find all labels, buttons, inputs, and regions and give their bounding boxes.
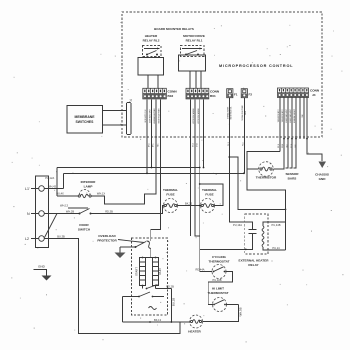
svg-text:BOARD MOUNTED RELAYS: BOARD MOUNTED RELAYS bbox=[154, 27, 194, 31]
junction BK,13 bbox=[149, 321, 151, 323]
connector CONN B02 bbox=[143, 88, 178, 99]
svg-text:HI LIMIT: HI LIMIT bbox=[212, 287, 224, 291]
svg-text:PU,13: PU,13 bbox=[228, 142, 230, 146]
pin label B01 rotated bbox=[193, 108, 200, 123]
svg-text:J7: J7 bbox=[129, 99, 133, 103]
svg-text:OVERLOAD: OVERLOAD bbox=[98, 234, 116, 238]
wires J4 pins down to dashed line bbox=[280, 97, 307, 152]
svg-text:WH,11: WH,11 bbox=[153, 143, 155, 147]
wire B01 pin3 long vertical to cycling feed bbox=[199, 100, 201, 250]
svg-text:WH,1X: WH,1X bbox=[97, 192, 105, 196]
svg-text:MOTOR DRIVE WINDING: MOTOR DRIVE WINDING bbox=[198, 108, 200, 123]
svg-text:BK,25: BK,25 bbox=[185, 201, 193, 205]
wire L2 diagonal to N row bbox=[45, 214, 58, 238]
pin label B02 rotated bbox=[145, 108, 161, 123]
bus wire 2 bbox=[64, 172, 245, 174]
svg-text:WH,14: WH,14 bbox=[149, 143, 151, 147]
wire labels below dashed line bbox=[149, 142, 298, 148]
heater relay RL2 bbox=[138, 34, 164, 88]
wire to chassis ground bbox=[307, 139, 322, 161]
svg-text:SWITCHES: SWITCHES bbox=[76, 120, 95, 124]
door switch bbox=[78, 209, 92, 232]
ground GND left bbox=[34, 265, 52, 281]
junction dots on J4 wires bbox=[283, 138, 308, 140]
svg-text:BK,13: BK,13 bbox=[154, 318, 162, 322]
svg-text:RD,1B: RD,1B bbox=[278, 144, 280, 148]
svg-text:THERMAL: THERMAL bbox=[202, 188, 217, 192]
svg-text:MICROPROCESSOR CONTROL: MICROPROCESSOR CONTROL bbox=[219, 64, 293, 68]
junction dots on buses bbox=[146, 167, 245, 207]
svg-text:MEMBRANE SW POWER: MEMBRANE SW POWER bbox=[153, 108, 156, 123]
svg-text:MOTOR DRIVE WINDING: MOTOR DRIVE WINDING bbox=[193, 108, 195, 123]
svg-text:BU,3B: BU,3B bbox=[57, 234, 65, 238]
wire winding tops bbox=[143, 257, 156, 259]
svg-text:HEATER RELAY COIL: HEATER RELAY COIL bbox=[230, 106, 233, 119]
wire door switch upper throw bbox=[68, 207, 88, 209]
wire lamp left bbox=[57, 195, 78, 197]
wire L1 bbox=[45, 188, 64, 190]
wire motor out down bbox=[170, 289, 172, 323]
svg-text:F1: F1 bbox=[234, 93, 238, 97]
svg-text:THERMAL: THERMAL bbox=[163, 188, 178, 192]
svg-text:WH,43: WH,43 bbox=[48, 184, 56, 188]
svg-text:BU,1B: BU,1B bbox=[171, 298, 175, 306]
ribbon connector J7 bbox=[127, 99, 133, 135]
wire B02 pin3 to interior lamp bbox=[91, 100, 156, 205]
svg-text:EXTERNAL HEATER: EXTERNAL HEATER bbox=[226, 107, 229, 119]
junction bottom riser bbox=[171, 321, 173, 323]
wire cycling feed bbox=[200, 249, 246, 271]
wire heater right bbox=[203, 305, 239, 322]
svg-text:THERMAL FUSE POWER: THERMAL FUSE POWER bbox=[241, 105, 244, 120]
svg-text:SWITCH: SWITCH bbox=[78, 228, 91, 232]
svg-text:WH,13: WH,13 bbox=[60, 203, 68, 207]
svg-text:N: N bbox=[27, 212, 30, 216]
motor run winding bbox=[153, 258, 163, 286]
bus left riser to terminal strip bbox=[57, 168, 64, 197]
svg-text:THERMOSTAT: THERMOSTAT bbox=[208, 260, 229, 264]
wire F2 to bus2 bbox=[243, 98, 245, 174]
svg-text:THERMISTOR INPUT: THERMISTOR INPUT bbox=[282, 109, 284, 122]
wire membrane to J7 bbox=[103, 111, 127, 126]
external heater relay box bbox=[245, 214, 268, 254]
wire motor left rect bbox=[122, 297, 124, 323]
svg-text:FUSE: FUSE bbox=[166, 193, 174, 197]
svg-text:PU,13A: PU,13A bbox=[233, 223, 242, 227]
thermal fuse 1 bbox=[164, 199, 178, 213]
svg-text:START: START bbox=[134, 267, 138, 276]
pointer line to overload bbox=[118, 240, 144, 243]
wire overload left lead bbox=[120, 246, 136, 248]
svg-text:SENSOR BARS INPUT: SENSOR BARS INPUT bbox=[289, 109, 292, 123]
svg-text:GND: GND bbox=[38, 265, 46, 269]
svg-text:DOOR: DOOR bbox=[79, 223, 89, 227]
svg-text:SENSOR BARS INPUT: SENSOR BARS INPUT bbox=[285, 109, 288, 123]
svg-text:INTERIOR: INTERIOR bbox=[81, 180, 97, 184]
bus wire 1 bbox=[57, 167, 200, 169]
wire B02 pin2 bbox=[151, 100, 153, 168]
svg-text:RELAY RL1: RELAY RL1 bbox=[186, 39, 203, 43]
relay contact plates bbox=[245, 222, 257, 249]
svg-text:PU,44B: PU,44B bbox=[272, 223, 281, 227]
svg-text:RELAY: RELAY bbox=[248, 263, 259, 267]
ground at overload bbox=[115, 247, 126, 258]
svg-text:PU,14: PU,14 bbox=[272, 246, 280, 250]
wire thermistor left bbox=[247, 168, 259, 170]
svg-text:L2: L2 bbox=[25, 237, 29, 241]
svg-text:MEMBRANE: MEMBRANE bbox=[75, 115, 96, 119]
svg-text:B01: B01 bbox=[210, 94, 216, 98]
svg-text:WH,1: WH,1 bbox=[158, 143, 160, 147]
svg-text:F2: F2 bbox=[249, 93, 253, 97]
connector CONN B01 bbox=[186, 88, 220, 99]
motor start winding bbox=[134, 258, 145, 286]
wire B01 pin labels stubs bbox=[191, 100, 200, 237]
pin labels J4 rotated bbox=[278, 109, 304, 123]
interior lamp bbox=[78, 190, 91, 198]
cycling thermostat bbox=[212, 265, 226, 279]
svg-text:BK,9X SUPPLY 21,9X: BK,9X SUPPLY 21,9X bbox=[145, 109, 147, 122]
motor drive relay RL1 bbox=[179, 34, 206, 88]
microprocessor control box bbox=[122, 12, 322, 137]
wire B01 pin4 stub bbox=[203, 100, 205, 168]
svg-text:CONN: CONN bbox=[310, 89, 320, 93]
wire between thermal fuses bbox=[178, 205, 202, 207]
svg-text:RD,3B: RD,3B bbox=[105, 209, 113, 213]
svg-text:THERMISTOR: THERMISTOR bbox=[256, 176, 277, 180]
wire thermal fuse 2 right up and over to bus2 bbox=[200, 184, 223, 206]
svg-text:HEATER: HEATER bbox=[188, 330, 201, 334]
svg-text:L1: L1 bbox=[25, 187, 29, 191]
svg-text:BK,43: BK,43 bbox=[193, 143, 195, 147]
membrane switches box bbox=[67, 106, 103, 134]
connector CONN J4 bbox=[278, 88, 320, 98]
svg-text:LAMP: LAMP bbox=[84, 185, 93, 189]
svg-text:HEATER RELAY POWER: HEATER RELAY POWER bbox=[158, 108, 161, 123]
wire B02 pin4 to motor overload bbox=[151, 100, 161, 242]
motor switch upper bbox=[142, 285, 172, 290]
wire relay right top bbox=[268, 221, 286, 223]
relay coil bbox=[262, 222, 285, 250]
svg-text:J4: J4 bbox=[312, 93, 316, 97]
centrifugal actuator bbox=[149, 307, 157, 310]
svg-text:PU,44: PU,44 bbox=[243, 142, 245, 146]
chassis ground bbox=[315, 162, 329, 182]
svg-text:CHASSIS: CHASSIS bbox=[315, 173, 329, 177]
svg-text:EXTERNAL HEATER: EXTERNAL HEATER bbox=[239, 259, 270, 263]
wire B02 pin1 bbox=[146, 100, 148, 174]
svg-text:CYCLING: CYCLING bbox=[212, 255, 227, 259]
svg-text:RD,2B: RD,2B bbox=[166, 284, 174, 288]
motor switch lower bbox=[123, 292, 165, 297]
wire F1 to external relay bbox=[229, 98, 245, 222]
wire cycling to hi-limit bbox=[208, 272, 232, 305]
thermistor bbox=[256, 162, 277, 180]
fuse F1 bbox=[227, 89, 238, 98]
svg-text:CONN: CONN bbox=[210, 90, 220, 94]
svg-text:GND: GND bbox=[319, 177, 327, 181]
svg-text:BARS: BARS bbox=[288, 177, 297, 181]
heater bbox=[188, 315, 202, 334]
svg-text:SENSOR: SENSOR bbox=[285, 172, 299, 176]
wire door switch out to thermal fuse 1 bbox=[91, 206, 165, 214]
pin label F1 F2 rotated bbox=[226, 105, 247, 120]
svg-text:THERMOSTAT: THERMOSTAT bbox=[207, 291, 228, 295]
svg-text:CONN: CONN bbox=[168, 90, 178, 94]
motor box bbox=[132, 238, 168, 315]
svg-text:DOOR SWITCH INPUT: DOOR SWITCH INPUT bbox=[150, 109, 152, 123]
wire hi-limit right bbox=[226, 304, 239, 306]
svg-text:WH,5B: WH,5B bbox=[238, 307, 242, 316]
svg-text:RELAY RL2: RELAY RL2 bbox=[143, 39, 160, 43]
svg-text:THERMISTOR INPUT: THERMISTOR INPUT bbox=[278, 109, 280, 122]
overload protector bbox=[135, 241, 151, 258]
thermal fuse 2 bbox=[201, 199, 215, 213]
svg-text:GY,9X: GY,9X bbox=[197, 143, 199, 147]
svg-text:PROTECTOR: PROTECTOR bbox=[97, 239, 117, 243]
svg-text:RUN: RUN bbox=[158, 268, 162, 274]
wire L2 down and around bottom bbox=[45, 239, 180, 334]
hi limit thermostat bbox=[213, 298, 227, 312]
wire N to door switch bbox=[45, 213, 80, 215]
svg-text:WH,2B: WH,2B bbox=[66, 209, 74, 213]
svg-text:GND: GND bbox=[302, 114, 304, 117]
svg-text:FUSE: FUSE bbox=[205, 193, 213, 197]
fuse F2 bbox=[241, 89, 252, 98]
svg-text:B02: B02 bbox=[168, 94, 174, 98]
wire heater line bbox=[123, 321, 190, 323]
svg-text:MOTOR DRIVE: MOTOR DRIVE bbox=[183, 34, 205, 38]
wire J4 pin1 to thermistor loop bbox=[247, 152, 286, 250]
sensor bars wires bbox=[286, 139, 297, 168]
svg-text:MEMBRANE SW INPUT: MEMBRANE SW INPUT bbox=[293, 109, 296, 123]
wire J4 pin2 to thermistor right bbox=[273, 139, 284, 169]
terminal strip bbox=[31, 176, 49, 248]
svg-text:HEATER: HEATER bbox=[145, 34, 158, 38]
